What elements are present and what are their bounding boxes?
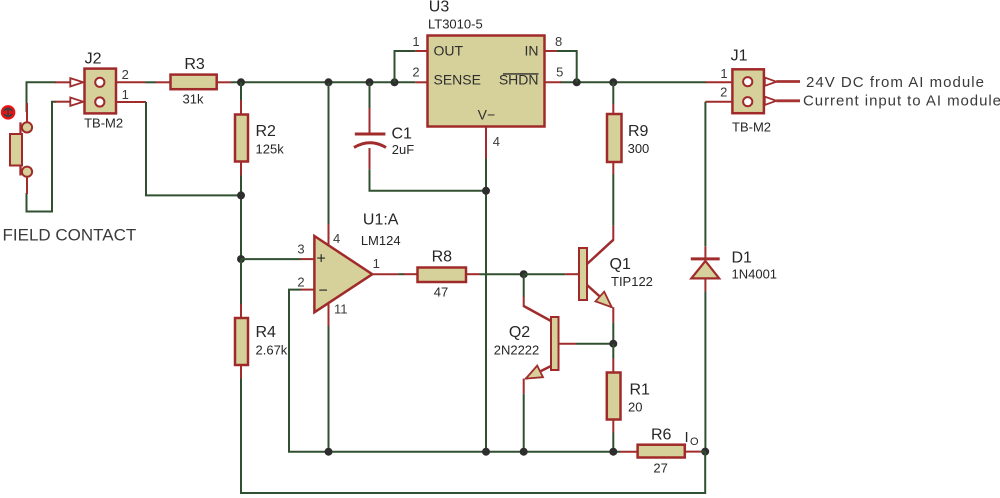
node U3 pin8 loop	[573, 78, 581, 86]
svg-text:2N2222: 2N2222	[494, 343, 540, 358]
op-amp U1:A	[314, 236, 372, 312]
svg-text:TB-M2: TB-M2	[84, 116, 123, 131]
node R9 top	[609, 78, 617, 86]
node C1	[366, 78, 374, 86]
svg-text:2: 2	[297, 275, 304, 290]
opamp output pin 1 stub	[372, 273, 398, 275]
node V- / C1	[482, 187, 490, 195]
resistor R6	[620, 451, 638, 453]
svg-text:Current input to AI module: Current input to AI module	[803, 93, 1000, 110]
J1 hole pin 1	[743, 77, 752, 86]
svg-text:2.67k: 2.67k	[256, 343, 288, 358]
svg-text:LM124: LM124	[361, 233, 401, 248]
node Q1 emitter / Q2 base / R1	[609, 340, 617, 348]
resistor R4	[240, 259, 242, 304]
resistor R2	[240, 82, 242, 100]
wire node to opamp pin3	[241, 258, 301, 260]
svg-text:1: 1	[720, 66, 727, 81]
pin stub J2 arrow 1	[55, 101, 70, 103]
svg-text:J1: J1	[731, 48, 748, 65]
svg-text:R8: R8	[432, 249, 453, 266]
svg-text:3: 3	[297, 242, 304, 257]
svg-text:31k: 31k	[183, 92, 204, 107]
resistor R8	[404, 273, 418, 275]
resistor R9	[612, 82, 614, 104]
node R8 out / Q2 collector	[520, 270, 528, 278]
J1 pointer line 1	[776, 80, 800, 83]
switch lever top	[19, 122, 21, 134]
svg-text:LT3010-5: LT3010-5	[428, 17, 483, 32]
svg-text:OUT: OUT	[434, 43, 464, 59]
J2 arrow pin 2	[70, 78, 83, 86]
wire J2 pin1 down to R2 bottom node	[146, 102, 241, 195]
svg-text:R1: R1	[630, 382, 651, 399]
switch FIELD CONTACT actuator	[2, 106, 14, 118]
regulator U3	[428, 36, 545, 127]
svg-text:IN: IN	[525, 43, 539, 59]
J1 hole pin 2	[743, 97, 752, 106]
J1 pointer line 2	[776, 99, 800, 102]
svg-text:D1: D1	[732, 250, 753, 267]
svg-text:2: 2	[720, 85, 727, 100]
switch terminal bottom	[22, 167, 32, 177]
main top rail center	[231, 81, 415, 83]
svg-text:1N4001: 1N4001	[732, 267, 778, 282]
svg-text:U3: U3	[429, 0, 450, 16]
svg-text:TIP122: TIP122	[611, 274, 653, 289]
U3 pin 5 SHDN stub	[545, 81, 562, 83]
node U3 OUT loop	[391, 78, 399, 86]
resistor R3	[156, 81, 171, 83]
bottom rail nodes	[325, 448, 333, 456]
U3 pin 2 SENSE stub	[415, 81, 427, 83]
node opamp plus branch	[237, 255, 245, 263]
svg-text:1: 1	[412, 34, 419, 49]
wire from J2 pin2-arrow left then down to switch	[27, 82, 57, 112]
svg-text:R9: R9	[628, 123, 649, 140]
svg-text:R4: R4	[256, 324, 277, 341]
J2 pin2 stub	[116, 81, 145, 83]
node opamp V+	[325, 78, 333, 86]
svg-text:2: 2	[412, 65, 419, 80]
svg-text:8: 8	[555, 34, 562, 49]
svg-text:2: 2	[122, 67, 129, 82]
svg-text:C1: C1	[392, 126, 413, 143]
capacitor C1	[369, 83, 371, 108]
svg-text:47: 47	[434, 284, 448, 299]
wire short rail J2 to R3	[145, 81, 156, 83]
J1 pin 2 stub and wire down to D1	[705, 101, 732, 103]
U3 pin 1 OUT stub and loop	[415, 50, 427, 52]
switch body	[10, 134, 22, 166]
transistor Q1	[612, 226, 614, 241]
node R3/R2	[237, 78, 245, 86]
resistor R1	[612, 344, 614, 359]
U3 pin 8 IN stub and loop	[545, 50, 557, 52]
svg-text:27: 27	[653, 460, 667, 475]
main top rail right	[560, 81, 706, 83]
opamp V+ pin 4 wire up	[328, 224, 330, 246]
svg-text:11: 11	[334, 301, 348, 316]
svg-text:FIELD CONTACT: FIELD CONTACT	[3, 226, 137, 245]
J2 hole pin 1	[95, 97, 104, 106]
J1 arrow pin 2	[765, 97, 777, 105]
svg-text:Q2: Q2	[509, 324, 530, 341]
pin stub J2 arrow 2	[55, 81, 70, 83]
opamp pin 11 wire down	[328, 303, 330, 326]
svg-text:2uF: 2uF	[392, 142, 414, 157]
J2 arrow pin 1	[70, 98, 83, 106]
svg-text:300: 300	[628, 141, 650, 156]
svg-text:4: 4	[333, 231, 340, 246]
svg-text:125k: 125k	[256, 141, 285, 156]
svg-text:24V DC from AI module: 24V DC from AI module	[806, 74, 985, 91]
svg-text:O: O	[690, 436, 699, 448]
svg-text:−: −	[319, 283, 328, 300]
switch terminal top	[22, 122, 32, 132]
svg-text:1: 1	[122, 87, 129, 102]
svg-text:SENSE: SENSE	[434, 72, 481, 88]
transistor Q2	[523, 274, 525, 297]
J2 hole pin 2	[95, 78, 104, 87]
switch lever bottom	[19, 165, 21, 176]
connector J2	[85, 69, 117, 114]
node R2 bottom	[237, 191, 245, 199]
svg-text:+: +	[317, 251, 326, 268]
svg-text:R2: R2	[256, 123, 277, 140]
bottom return rail	[241, 379, 705, 494]
diode D1	[704, 246, 706, 259]
U3 pin 4 V- wire down	[485, 127, 487, 159]
svg-text:V−: V−	[478, 107, 496, 123]
svg-text:Q1: Q1	[610, 256, 631, 273]
J1 pin 1 stub	[706, 81, 733, 83]
svg-text:J2: J2	[85, 51, 102, 68]
svg-text:U1:A: U1:A	[363, 212, 399, 229]
svg-text:R6: R6	[651, 427, 672, 444]
svg-text:20: 20	[628, 399, 642, 414]
svg-text:1: 1	[373, 256, 380, 271]
svg-text:I: I	[685, 429, 689, 446]
opamp pin 2 feedback wire	[301, 289, 314, 291]
J1 arrow pin 1	[765, 78, 777, 86]
svg-text:R3: R3	[184, 56, 205, 73]
svg-text:4: 4	[493, 134, 500, 149]
switch pin stubs	[26, 103, 28, 123]
wire from switch bottom to J2 pin1-arrow loop	[27, 102, 57, 212]
svg-text:5: 5	[556, 65, 563, 80]
svg-text:TB-M2: TB-M2	[732, 120, 771, 135]
J2 pin1 stub	[116, 101, 146, 103]
connector J1	[732, 69, 764, 113]
